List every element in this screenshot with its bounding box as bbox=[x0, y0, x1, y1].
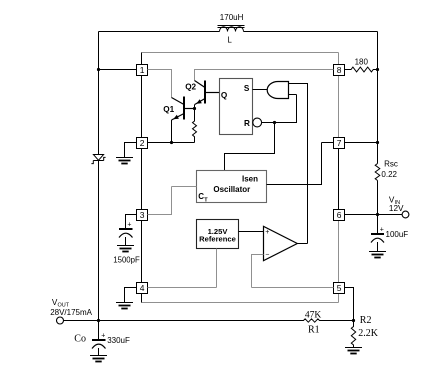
wire S input bbox=[253, 89, 268, 91]
node pin7/rail bbox=[376, 141, 379, 144]
ground pin2 bbox=[116, 158, 133, 164]
wire reference to comparator bbox=[239, 231, 264, 233]
wire pin1 to Q1 collector bbox=[148, 70, 172, 98]
svg-text:R2: R2 bbox=[360, 315, 372, 326]
and gate U1 (mirrored) bbox=[267, 82, 288, 99]
transistor Q2 bbox=[195, 81, 206, 88]
resistor R2 2.2K bbox=[351, 321, 355, 348]
wire pin3 left bbox=[126, 214, 137, 229]
svg-text:Q: Q bbox=[221, 91, 228, 100]
flip-flop latch bbox=[220, 79, 253, 135]
diode D1 (schottky) bbox=[93, 155, 103, 161]
svg-text:47K: 47K bbox=[305, 310, 322, 320]
svg-text:Q2: Q2 bbox=[185, 83, 196, 92]
svg-text:L: L bbox=[227, 35, 232, 44]
wire pin4 left to ground bbox=[125, 287, 137, 303]
node pin6/rail bbox=[376, 213, 379, 216]
svg-text:Co: Co bbox=[74, 334, 86, 345]
wire pin7 right bbox=[345, 142, 378, 144]
transistor Q1 bbox=[172, 98, 185, 105]
svg-text:12V: 12V bbox=[389, 204, 404, 213]
node Q1 base junction bbox=[193, 107, 196, 110]
wire Isen to pin7 bbox=[267, 143, 334, 186]
svg-text:6: 6 bbox=[337, 210, 342, 220]
R input bubble bbox=[253, 118, 262, 127]
IC outline bottom edge bbox=[142, 294, 339, 303]
wire pin1 left bbox=[99, 69, 137, 71]
pin 4 bbox=[137, 283, 148, 294]
svg-text:100uF: 100uF bbox=[386, 230, 409, 239]
wire pin3 to CT input bbox=[148, 187, 197, 216]
pin 2 bbox=[137, 138, 148, 149]
svg-text:1: 1 bbox=[140, 65, 145, 75]
svg-text:+: + bbox=[380, 226, 384, 233]
svg-text:R: R bbox=[244, 119, 250, 128]
pin 3 bbox=[137, 210, 148, 221]
svg-text:170uH: 170uH bbox=[220, 13, 244, 22]
wire top rail bbox=[99, 31, 378, 33]
svg-text:180: 180 bbox=[355, 57, 369, 66]
svg-text:1500pF: 1500pF bbox=[113, 255, 140, 264]
svg-text:3: 3 bbox=[140, 210, 145, 220]
pin 1 bbox=[137, 65, 148, 76]
wire R input bbox=[262, 95, 297, 124]
wire pin8 to Q2 collector bbox=[195, 70, 334, 81]
IC outline right edge pin7-pin6 segment bbox=[338, 149, 340, 210]
capacitor 1500pF bbox=[119, 228, 133, 230]
svg-text:Oscillator: Oscillator bbox=[213, 185, 250, 194]
resistor Rsc 0.22 bbox=[375, 164, 380, 181]
pin 6 bbox=[334, 210, 345, 221]
node R junction bbox=[273, 121, 276, 124]
svg-text:330uF: 330uF bbox=[107, 336, 130, 345]
IC outline right edge pin6-pin5 bbox=[338, 221, 340, 283]
wire left rail bbox=[98, 32, 100, 321]
oscillator box bbox=[197, 171, 267, 203]
svg-text:+: + bbox=[101, 332, 105, 339]
wire pin2 left to ground bbox=[125, 142, 137, 158]
svg-text:0.22: 0.22 bbox=[381, 170, 397, 179]
svg-text:+: + bbox=[127, 222, 131, 229]
svg-text:−: − bbox=[265, 252, 269, 259]
svg-text:5: 5 bbox=[337, 283, 342, 293]
wire oscillator to R bbox=[225, 123, 275, 171]
svg-text:7: 7 bbox=[337, 138, 342, 148]
wire Q2 emitter to base node bbox=[194, 105, 196, 109]
resistor base-emitter bbox=[193, 109, 197, 143]
svg-text:Rsc: Rsc bbox=[384, 159, 398, 168]
capacitor 100uF bbox=[371, 233, 384, 235]
svg-text:Q1: Q1 bbox=[163, 105, 174, 114]
svg-text:+: + bbox=[265, 229, 269, 236]
svg-text:2.2K: 2.2K bbox=[358, 328, 379, 339]
svg-text:28V/175mA: 28V/175mA bbox=[50, 308, 92, 317]
pin 8 bbox=[334, 65, 345, 76]
wire right rail bbox=[377, 32, 379, 234]
wire pin6 right to Vin terminal bbox=[345, 214, 403, 216]
wire and gate top input to comparator output bbox=[289, 83, 308, 244]
terminal Vout bbox=[57, 317, 64, 324]
IC outline left edge pins 1-4 bbox=[141, 76, 143, 303]
wire comparator inverting input to pin5 bbox=[252, 254, 334, 288]
capacitor Co 330uF bbox=[98, 321, 100, 340]
inductor L bbox=[220, 27, 244, 32]
node R1/R2 junction bbox=[352, 319, 355, 322]
wire pin5 right to R divider bbox=[345, 287, 354, 321]
wire reference ground to pin4 bbox=[148, 249, 217, 288]
svg-text:2: 2 bbox=[140, 138, 145, 148]
wire pin2 right bbox=[148, 142, 195, 144]
svg-text:4: 4 bbox=[140, 283, 145, 293]
IC outline right edge pin8-pin7 bbox=[338, 76, 340, 138]
node 180/rail bbox=[376, 68, 379, 71]
comparator bbox=[264, 226, 298, 260]
resistor 180 bbox=[345, 67, 378, 72]
pin 5 bbox=[334, 283, 345, 294]
svg-text:8: 8 bbox=[337, 65, 342, 75]
node Q1 emitter junction bbox=[170, 141, 173, 144]
wire Vout row with resistor R1 47K bbox=[64, 319, 354, 322]
svg-text:R1: R1 bbox=[308, 325, 320, 336]
IC outline pin1 top stub bbox=[141, 53, 143, 65]
svg-text:Isen: Isen bbox=[242, 175, 258, 184]
terminal Vin bbox=[402, 211, 409, 218]
reference box bbox=[197, 220, 239, 249]
svg-text:S: S bbox=[244, 84, 250, 93]
pin 7 bbox=[334, 138, 345, 149]
node junction pin1/left rail bbox=[97, 68, 100, 71]
node Co junction bbox=[97, 319, 100, 322]
wire Q1 emitter to pin2 wire bbox=[171, 120, 173, 143]
svg-text:Reference: Reference bbox=[199, 235, 236, 244]
IC outline top edge bbox=[142, 53, 339, 65]
